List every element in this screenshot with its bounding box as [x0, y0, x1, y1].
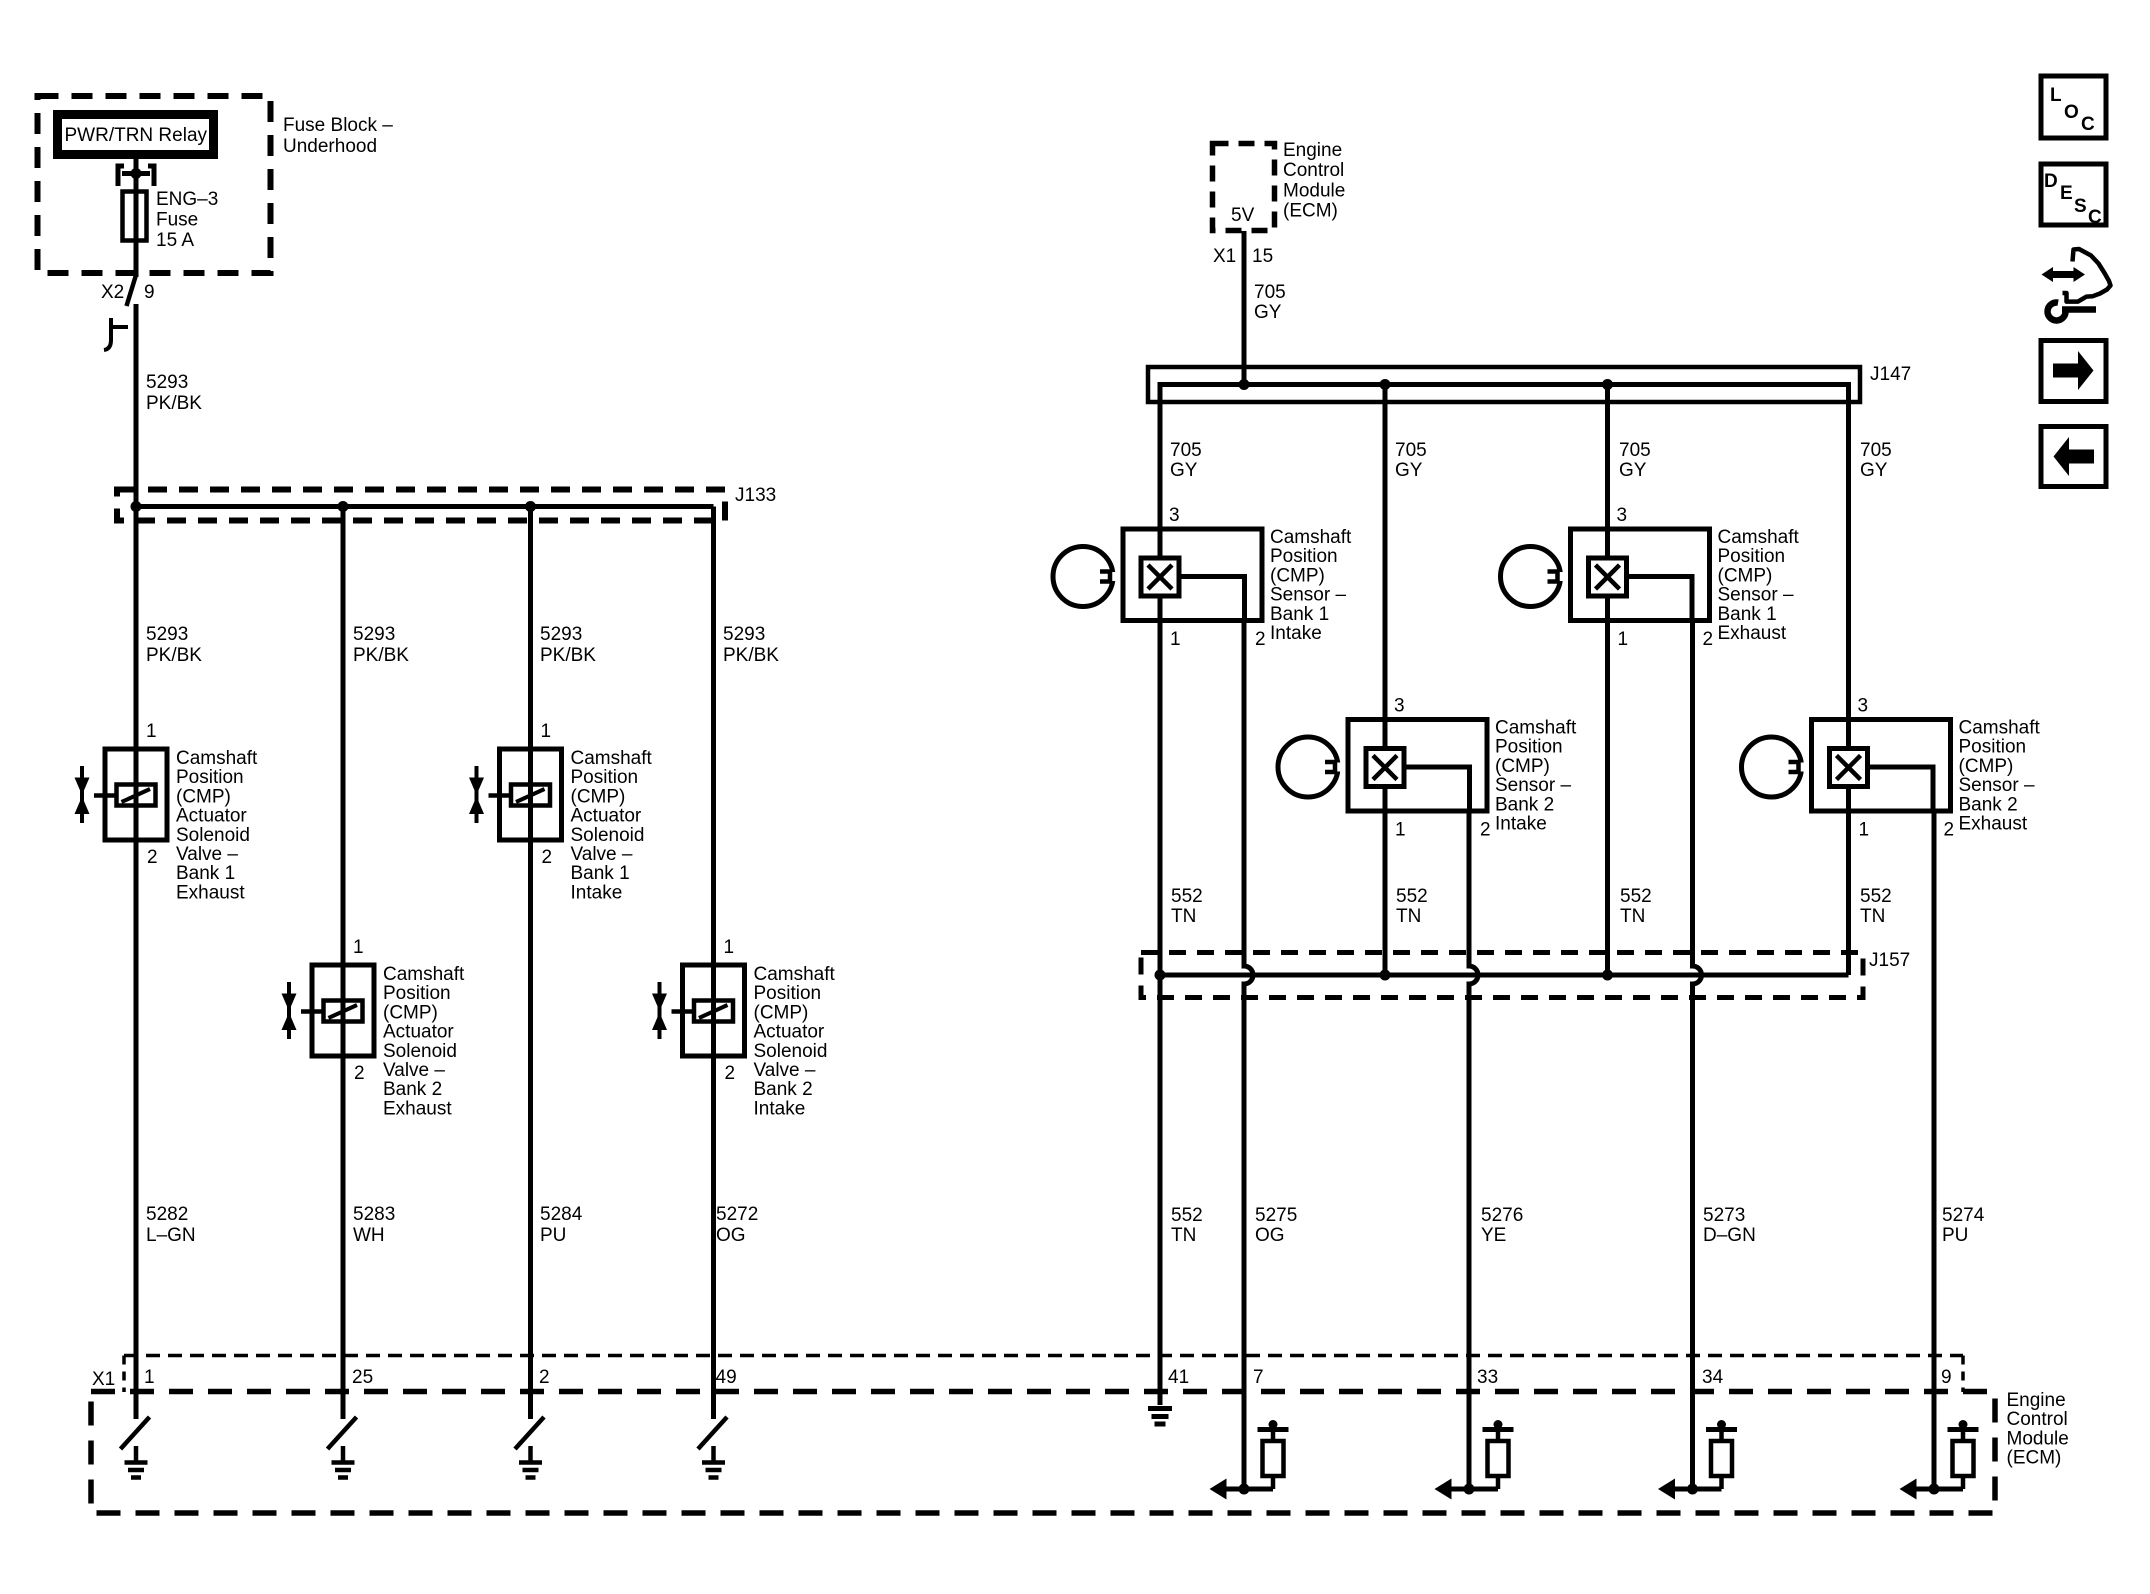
svg-text:Sensor –: Sensor –	[1495, 775, 1571, 796]
svg-text:PK/BK: PK/BK	[146, 645, 202, 666]
svg-text:Intake: Intake	[1495, 814, 1547, 835]
junction dot J133-2	[338, 501, 349, 512]
svg-text:Engine: Engine	[2007, 1390, 2066, 1411]
icon: LOC box	[2041, 76, 2106, 138]
icon: arrow right box	[2041, 341, 2106, 402]
wire: fuse to connector X2	[134, 241, 139, 277]
svg-text:J133: J133	[735, 485, 776, 506]
ECM internal output driver pin 34 (arrow)	[1673, 1487, 1722, 1492]
wire 5276 YE: sensor pin2 to ECM (hops over J157 bus)	[1469, 811, 1478, 1489]
svg-text:YE: YE	[1481, 1225, 1506, 1246]
svg-text:705: 705	[1619, 440, 1651, 461]
svg-text:5272: 5272	[716, 1204, 758, 1225]
svg-text:Exhaust: Exhaust	[1718, 623, 1787, 644]
resistor at ECM pin 9	[1948, 1420, 1979, 1489]
svg-text:Bank 2: Bank 2	[1959, 794, 2018, 815]
svg-text:(CMP): (CMP)	[176, 786, 231, 807]
svg-text:1: 1	[541, 721, 552, 742]
svg-text:OG: OG	[1255, 1225, 1285, 1246]
relay K1 PWR/TRN Relay	[58, 115, 214, 155]
svg-text:15 A: 15 A	[156, 230, 194, 251]
svg-text:GY: GY	[1619, 460, 1647, 481]
svg-text:Exhaust: Exhaust	[176, 882, 245, 903]
svg-text:5293: 5293	[723, 624, 765, 645]
svg-text:Position: Position	[571, 767, 639, 788]
junction dot J157-3	[1602, 970, 1613, 981]
svg-text:Valve –: Valve –	[383, 1060, 445, 1081]
svg-text:5274: 5274	[1942, 1205, 1985, 1226]
svg-text:O: O	[2064, 102, 2079, 123]
svg-text:705: 705	[1395, 440, 1427, 461]
svg-text:Underhood: Underhood	[283, 136, 377, 157]
connector row left tick	[122, 1356, 126, 1393]
wire 552 TN sensor2 pin1 to J157	[1383, 811, 1388, 975]
CMP actuator solenoid valve 3 (Bank 1 Intake)	[469, 749, 562, 840]
svg-text:5V: 5V	[1231, 205, 1255, 226]
svg-text:2: 2	[1944, 820, 1955, 841]
svg-text:PK/BK: PK/BK	[540, 645, 596, 666]
svg-text:GY: GY	[1860, 460, 1888, 481]
svg-text:Control: Control	[1283, 160, 1344, 181]
svg-text:(ECM): (ECM)	[2007, 1448, 2062, 1469]
svg-text:2: 2	[1703, 629, 1714, 650]
svg-text:C: C	[2088, 207, 2102, 228]
junction dot J133-1	[131, 501, 142, 512]
CMP sensor 2 (Bank 2 Intake)	[1278, 720, 1487, 812]
svg-text:Module: Module	[1283, 180, 1345, 201]
svg-text:2: 2	[542, 847, 553, 868]
svg-text:Exhaust: Exhaust	[1959, 814, 2028, 835]
svg-text:Position: Position	[176, 767, 244, 788]
connector terminal hook	[104, 318, 128, 350]
svg-text:Camshaft: Camshaft	[383, 964, 465, 985]
svg-text:D: D	[2044, 171, 2058, 192]
ground 2	[332, 1446, 355, 1478]
connector row right tick	[1961, 1356, 1965, 1393]
svg-text:3: 3	[1858, 696, 1869, 717]
CMP sensor 4 (Bank 2 Exhaust)	[1742, 720, 1951, 812]
svg-text:Valve –: Valve –	[176, 844, 238, 865]
wire 5273 D-GN: sensor pin2 to ECM (hops over J157 bus)	[1693, 621, 1702, 1490]
icon: DESC box	[2041, 164, 2106, 228]
svg-text:D–GN: D–GN	[1703, 1225, 1756, 1246]
svg-text:(CMP): (CMP)	[754, 1002, 809, 1023]
svg-text:Valve –: Valve –	[754, 1060, 816, 1081]
wire 5293 PK/BK to valve 4	[711, 507, 716, 966]
svg-text:Solenoid: Solenoid	[383, 1041, 457, 1062]
svg-text:552: 552	[1171, 1205, 1203, 1226]
wire 552 TN sensor4 pin1 to J157 bus end	[1846, 811, 1851, 975]
svg-text:49: 49	[716, 1367, 737, 1388]
icon: arrow left box	[2041, 427, 2106, 487]
junction dot J157-2	[1380, 970, 1391, 981]
svg-text:Actuator: Actuator	[383, 1022, 454, 1043]
svg-text:5282: 5282	[146, 1204, 188, 1225]
CMP actuator solenoid valve 4 (Bank 2 Intake)	[652, 965, 745, 1056]
svg-text:Bank 1: Bank 1	[1718, 604, 1777, 625]
svg-text:9: 9	[144, 282, 155, 303]
svg-text:33: 33	[1477, 1367, 1498, 1388]
svg-text:(ECM): (ECM)	[1283, 201, 1338, 222]
svg-text:X1: X1	[1213, 246, 1236, 267]
resistor at ECM pin 33	[1483, 1420, 1514, 1489]
svg-text:(CMP): (CMP)	[1495, 756, 1550, 777]
svg-text:25: 25	[352, 1367, 373, 1388]
svg-text:Intake: Intake	[571, 882, 623, 903]
wire 705 GY to sensor 3	[1605, 385, 1610, 530]
wire 705 GY: ECM 5V to J147	[1242, 231, 1247, 385]
svg-text:PK/BK: PK/BK	[723, 645, 779, 666]
wire 5284 PU: valve to ECM	[528, 840, 533, 1419]
svg-text:552: 552	[1860, 886, 1892, 907]
svg-text:GY: GY	[1254, 302, 1282, 323]
svg-text:5293: 5293	[146, 624, 188, 645]
wire 5282 L-GN: valve to ECM	[134, 840, 139, 1419]
splice J133 bus wire	[136, 504, 714, 509]
svg-text:E: E	[2060, 183, 2073, 204]
junction dot J147-1	[1239, 379, 1250, 390]
svg-text:Actuator: Actuator	[176, 806, 247, 827]
svg-text:3: 3	[1617, 505, 1628, 526]
svg-text:5276: 5276	[1481, 1205, 1523, 1226]
svg-text:Actuator: Actuator	[571, 806, 642, 827]
svg-text:5293: 5293	[540, 624, 582, 645]
ground 3	[519, 1446, 542, 1478]
ECM internal switch 3	[515, 1417, 544, 1449]
connector X1 fine dashed pin row	[124, 1354, 1963, 1358]
svg-text:5293: 5293	[353, 624, 395, 645]
icon: hand with double arrow and wrench	[2042, 249, 2111, 320]
svg-text:9: 9	[1941, 1367, 1952, 1388]
wire 552 TN sensor1 pin1 to J157	[1158, 621, 1163, 976]
svg-text:Bank 1: Bank 1	[176, 863, 235, 884]
svg-text:2: 2	[725, 1063, 736, 1084]
ECM internal output driver pin 7 (arrow)	[1224, 1487, 1273, 1492]
svg-text:Actuator: Actuator	[754, 1022, 825, 1043]
svg-text:Bank 1: Bank 1	[571, 863, 630, 884]
splice pack J147 housing	[1148, 367, 1860, 402]
svg-text:(CMP): (CMP)	[383, 1002, 438, 1023]
ECM internal switch 2	[328, 1417, 357, 1449]
resistor at ECM pin 34	[1706, 1420, 1737, 1489]
wire 5275 OG: sensor pin2 to ECM (hops over J157 bus)	[1244, 621, 1253, 1490]
svg-text:(CMP): (CMP)	[1959, 756, 2014, 777]
ground at ECM pin 41	[1148, 1409, 1172, 1425]
svg-text:5275: 5275	[1255, 1205, 1297, 1226]
svg-text:X2: X2	[101, 282, 124, 303]
svg-text:GY: GY	[1395, 460, 1423, 481]
svg-text:Camshaft: Camshaft	[176, 748, 258, 769]
fuse ENG-3 15A	[123, 192, 147, 241]
resistor at ECM pin 7	[1258, 1420, 1289, 1489]
svg-text:(CMP): (CMP)	[1270, 565, 1325, 586]
wire: relay to fuse	[134, 159, 139, 192]
CMP actuator solenoid valve 1 (Bank 1 Exhaust)	[75, 749, 168, 840]
wire 5283 WH: valve to ECM	[341, 1056, 346, 1419]
svg-text:Bank 2: Bank 2	[383, 1079, 442, 1100]
svg-text:Fuse Block –: Fuse Block –	[283, 115, 393, 136]
ECM internal switch 4	[698, 1417, 727, 1449]
engine control module bottom dashed box	[91, 1392, 1995, 1514]
svg-text:2: 2	[147, 847, 158, 868]
svg-text:3: 3	[1394, 696, 1405, 717]
svg-text:(CMP): (CMP)	[1718, 565, 1773, 586]
wire 705 GY to sensor 2	[1383, 385, 1388, 720]
fuse block underhood dashed box	[38, 96, 271, 273]
svg-text:Sensor –: Sensor –	[1270, 585, 1346, 606]
svg-text:1: 1	[1618, 629, 1629, 650]
svg-text:Control: Control	[2007, 1409, 2068, 1430]
svg-text:1: 1	[724, 937, 735, 958]
svg-text:7: 7	[1253, 1367, 1264, 1388]
svg-text:552: 552	[1396, 886, 1428, 907]
svg-text:C: C	[2081, 114, 2095, 135]
svg-text:705: 705	[1860, 440, 1892, 461]
svg-text:2: 2	[1255, 629, 1266, 650]
svg-text:PK/BK: PK/BK	[353, 645, 409, 666]
svg-text:TN: TN	[1396, 906, 1421, 927]
svg-text:1: 1	[144, 1367, 155, 1388]
svg-text:2: 2	[354, 1063, 365, 1084]
svg-text:Solenoid: Solenoid	[176, 825, 250, 846]
fuse holder clip terminals	[118, 166, 124, 186]
connector terminal slant	[127, 275, 137, 306]
wire 552 TN sensor3 pin1 to J157	[1605, 621, 1610, 976]
svg-text:552: 552	[1620, 886, 1652, 907]
wire 5293 PK/BK: connector to splice J133	[134, 304, 139, 507]
svg-text:Position: Position	[754, 983, 822, 1004]
svg-text:Valve –: Valve –	[571, 844, 633, 865]
svg-text:Bank 1: Bank 1	[1270, 604, 1329, 625]
svg-text:5284: 5284	[540, 1204, 583, 1225]
splice pack J133 dashed box	[117, 490, 725, 521]
ECM internal output driver pin 33 (arrow)	[1449, 1487, 1498, 1492]
svg-text:GY: GY	[1170, 460, 1198, 481]
splice J147 bus wire	[1160, 385, 1849, 720]
svg-text:Position: Position	[1270, 546, 1338, 567]
svg-text:TN: TN	[1171, 1225, 1196, 1246]
CMP sensor 1 (Bank 1 Intake)	[1053, 529, 1262, 621]
svg-text:Camshaft: Camshaft	[1270, 527, 1352, 548]
svg-text:(CMP): (CMP)	[571, 786, 626, 807]
svg-text:Camshaft: Camshaft	[1495, 718, 1577, 739]
svg-text:705: 705	[1254, 282, 1286, 303]
splice pack J157 dashed box	[1141, 953, 1863, 998]
svg-text:L: L	[2050, 85, 2062, 106]
svg-text:41: 41	[1168, 1367, 1189, 1388]
svg-text:PU: PU	[540, 1225, 566, 1246]
svg-text:Position: Position	[1495, 737, 1563, 758]
wire 5272 OG: valve to ECM	[711, 1056, 716, 1419]
svg-text:5293: 5293	[146, 372, 188, 393]
junction dot J147-3	[1602, 379, 1613, 390]
svg-text:Exhaust: Exhaust	[383, 1098, 452, 1119]
svg-text:Sensor –: Sensor –	[1959, 775, 2035, 796]
svg-text:1: 1	[1859, 820, 1870, 841]
svg-text:Module: Module	[2007, 1428, 2069, 1449]
CMP actuator solenoid valve 2 (Bank 2 Exhaust)	[282, 965, 375, 1056]
ECM internal switch 1	[121, 1417, 150, 1449]
svg-text:PWR/TRN Relay: PWR/TRN Relay	[65, 125, 208, 146]
svg-text:J157: J157	[1869, 950, 1910, 971]
svg-text:Position: Position	[1959, 737, 2027, 758]
svg-text:1: 1	[1395, 820, 1406, 841]
svg-text:Fuse: Fuse	[156, 210, 198, 231]
svg-text:S: S	[2074, 196, 2087, 217]
ECM internal output driver pin 9 (arrow)	[1914, 1487, 1963, 1492]
wire 5293 PK/BK to valve 3	[528, 507, 533, 750]
svg-text:X1: X1	[92, 1369, 115, 1390]
CMP sensor 3 (Bank 1 Exhaust)	[1501, 529, 1710, 621]
svg-text:Engine: Engine	[1283, 140, 1342, 161]
svg-text:TN: TN	[1171, 906, 1196, 927]
svg-text:L–GN: L–GN	[146, 1225, 196, 1246]
svg-text:2: 2	[539, 1367, 550, 1388]
svg-text:2: 2	[1480, 820, 1491, 841]
ground 4	[702, 1446, 725, 1478]
wire 5293 PK/BK to valve 1	[134, 507, 139, 750]
svg-text:Solenoid: Solenoid	[754, 1041, 828, 1062]
svg-text:Camshaft: Camshaft	[1718, 527, 1800, 548]
svg-text:5283: 5283	[353, 1204, 395, 1225]
svg-text:15: 15	[1252, 246, 1273, 267]
wire 552 TN: J157 to ECM pin 41	[1158, 975, 1163, 1405]
svg-text:34: 34	[1702, 1367, 1724, 1388]
svg-text:3: 3	[1169, 505, 1180, 526]
splice J157 bus wire	[1159, 973, 1849, 978]
svg-text:705: 705	[1170, 440, 1202, 461]
ground 1	[125, 1446, 148, 1478]
engine control module top dashed box	[1213, 144, 1275, 231]
svg-text:5273: 5273	[1703, 1205, 1745, 1226]
svg-text:1: 1	[353, 937, 364, 958]
svg-text:Bank 2: Bank 2	[754, 1079, 813, 1100]
svg-text:TN: TN	[1620, 906, 1645, 927]
svg-text:OG: OG	[716, 1225, 746, 1246]
svg-text:Position: Position	[383, 983, 451, 1004]
svg-text:PU: PU	[1942, 1225, 1968, 1246]
svg-text:1: 1	[146, 721, 157, 742]
junction dot J133-3	[525, 501, 536, 512]
svg-text:Camshaft: Camshaft	[754, 964, 836, 985]
svg-text:Intake: Intake	[1270, 623, 1322, 644]
junction dot J157-1	[1155, 970, 1166, 981]
svg-text:Solenoid: Solenoid	[571, 825, 645, 846]
svg-text:ENG–3: ENG–3	[156, 189, 218, 210]
wire 5274 PU: sensor4 pin2 to ECM	[1932, 811, 1937, 1489]
svg-text:Position: Position	[1718, 546, 1786, 567]
svg-text:Camshaft: Camshaft	[1959, 718, 2041, 739]
svg-text:Bank 2: Bank 2	[1495, 794, 1554, 815]
svg-text:J147: J147	[1870, 364, 1911, 385]
svg-text:Intake: Intake	[754, 1098, 806, 1119]
svg-text:552: 552	[1171, 886, 1203, 907]
svg-text:WH: WH	[353, 1225, 385, 1246]
junction dot J147-2	[1380, 379, 1391, 390]
svg-text:Sensor –: Sensor –	[1718, 585, 1794, 606]
wire 5293 PK/BK to valve 2	[341, 507, 346, 966]
svg-text:Camshaft: Camshaft	[571, 748, 653, 769]
svg-text:PK/BK: PK/BK	[146, 393, 202, 414]
svg-text:1: 1	[1170, 629, 1181, 650]
svg-text:TN: TN	[1860, 906, 1885, 927]
